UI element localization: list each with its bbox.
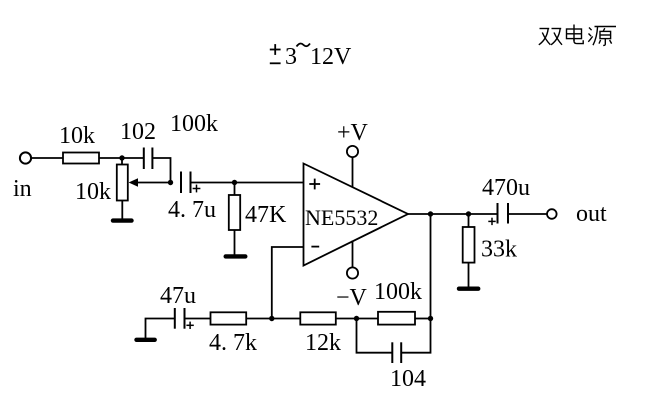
resistor 100k (feedback)	[378, 312, 415, 325]
node H	[428, 316, 433, 321]
svg-text:102: 102	[120, 119, 156, 145]
wire	[415, 318, 431, 320]
svg-text:10k: 10k	[59, 123, 95, 149]
ground	[121, 201, 123, 220]
svg-text:4. 7k: 4. 7k	[209, 330, 257, 356]
ground (bottom left)	[146, 319, 175, 339]
node F	[269, 316, 274, 321]
capacitor 102	[143, 148, 145, 170]
wire (feedback vertical)	[430, 214, 432, 319]
svg-text:3: 3	[285, 44, 297, 70]
wire	[191, 182, 304, 184]
wire	[152, 158, 170, 183]
wire	[31, 157, 63, 159]
capacitor 4.7u	[180, 172, 182, 194]
svg-text:12V: 12V	[310, 44, 352, 70]
resistor 47K	[234, 183, 236, 196]
svg-text:33k: 33k	[481, 237, 517, 263]
wire	[99, 157, 144, 159]
svg-text:12k: 12k	[305, 330, 341, 356]
svg-text:47u: 47u	[160, 283, 196, 309]
-V terminal	[347, 267, 358, 278]
+V terminal	[347, 146, 358, 157]
svg-text:−V: −V	[336, 285, 368, 311]
wire	[508, 213, 547, 215]
svg-text:4. 7u: 4. 7u	[168, 197, 216, 223]
svg-text:47K: 47K	[245, 202, 287, 228]
node A	[119, 155, 124, 160]
svg-text:104: 104	[390, 366, 426, 392]
resistor 10k (series input)	[63, 153, 99, 164]
svg-text:in: in	[13, 176, 32, 202]
resistor 4.7k	[211, 312, 247, 324]
svg-text:100k: 100k	[170, 111, 218, 137]
potentiometer 10k	[117, 165, 128, 201]
wire	[121, 158, 123, 165]
wire	[185, 318, 211, 320]
capacitor 470u	[497, 203, 499, 224]
svg-text:100k: 100k	[374, 279, 422, 305]
wire (to inverting input)	[272, 247, 304, 319]
resistor 33k	[468, 214, 470, 227]
svg-text:NE5532: NE5532	[305, 205, 378, 230]
svg-text:470u: 470u	[482, 175, 530, 201]
capacitor 47u	[174, 308, 176, 329]
ground	[226, 254, 246, 258]
input terminal	[20, 152, 31, 163]
svg-text:+V: +V	[337, 120, 369, 146]
label ±3~12V	[270, 43, 352, 70]
node C	[232, 180, 237, 185]
svg-text:10k: 10k	[75, 179, 111, 205]
node D	[428, 211, 433, 216]
output terminal	[547, 209, 557, 219]
ground	[459, 287, 478, 291]
wire (output)	[408, 213, 498, 215]
wire (wiper)	[138, 182, 171, 184]
wire	[336, 318, 378, 320]
resistor 12k	[300, 312, 336, 324]
label 双电源	[539, 25, 616, 46]
node G	[354, 316, 359, 321]
capacitor 104	[357, 319, 393, 353]
node E	[466, 211, 471, 216]
node B	[168, 180, 173, 185]
wire	[246, 318, 300, 320]
op-amp U1 NE5532	[304, 164, 409, 266]
svg-text:out: out	[576, 201, 607, 227]
